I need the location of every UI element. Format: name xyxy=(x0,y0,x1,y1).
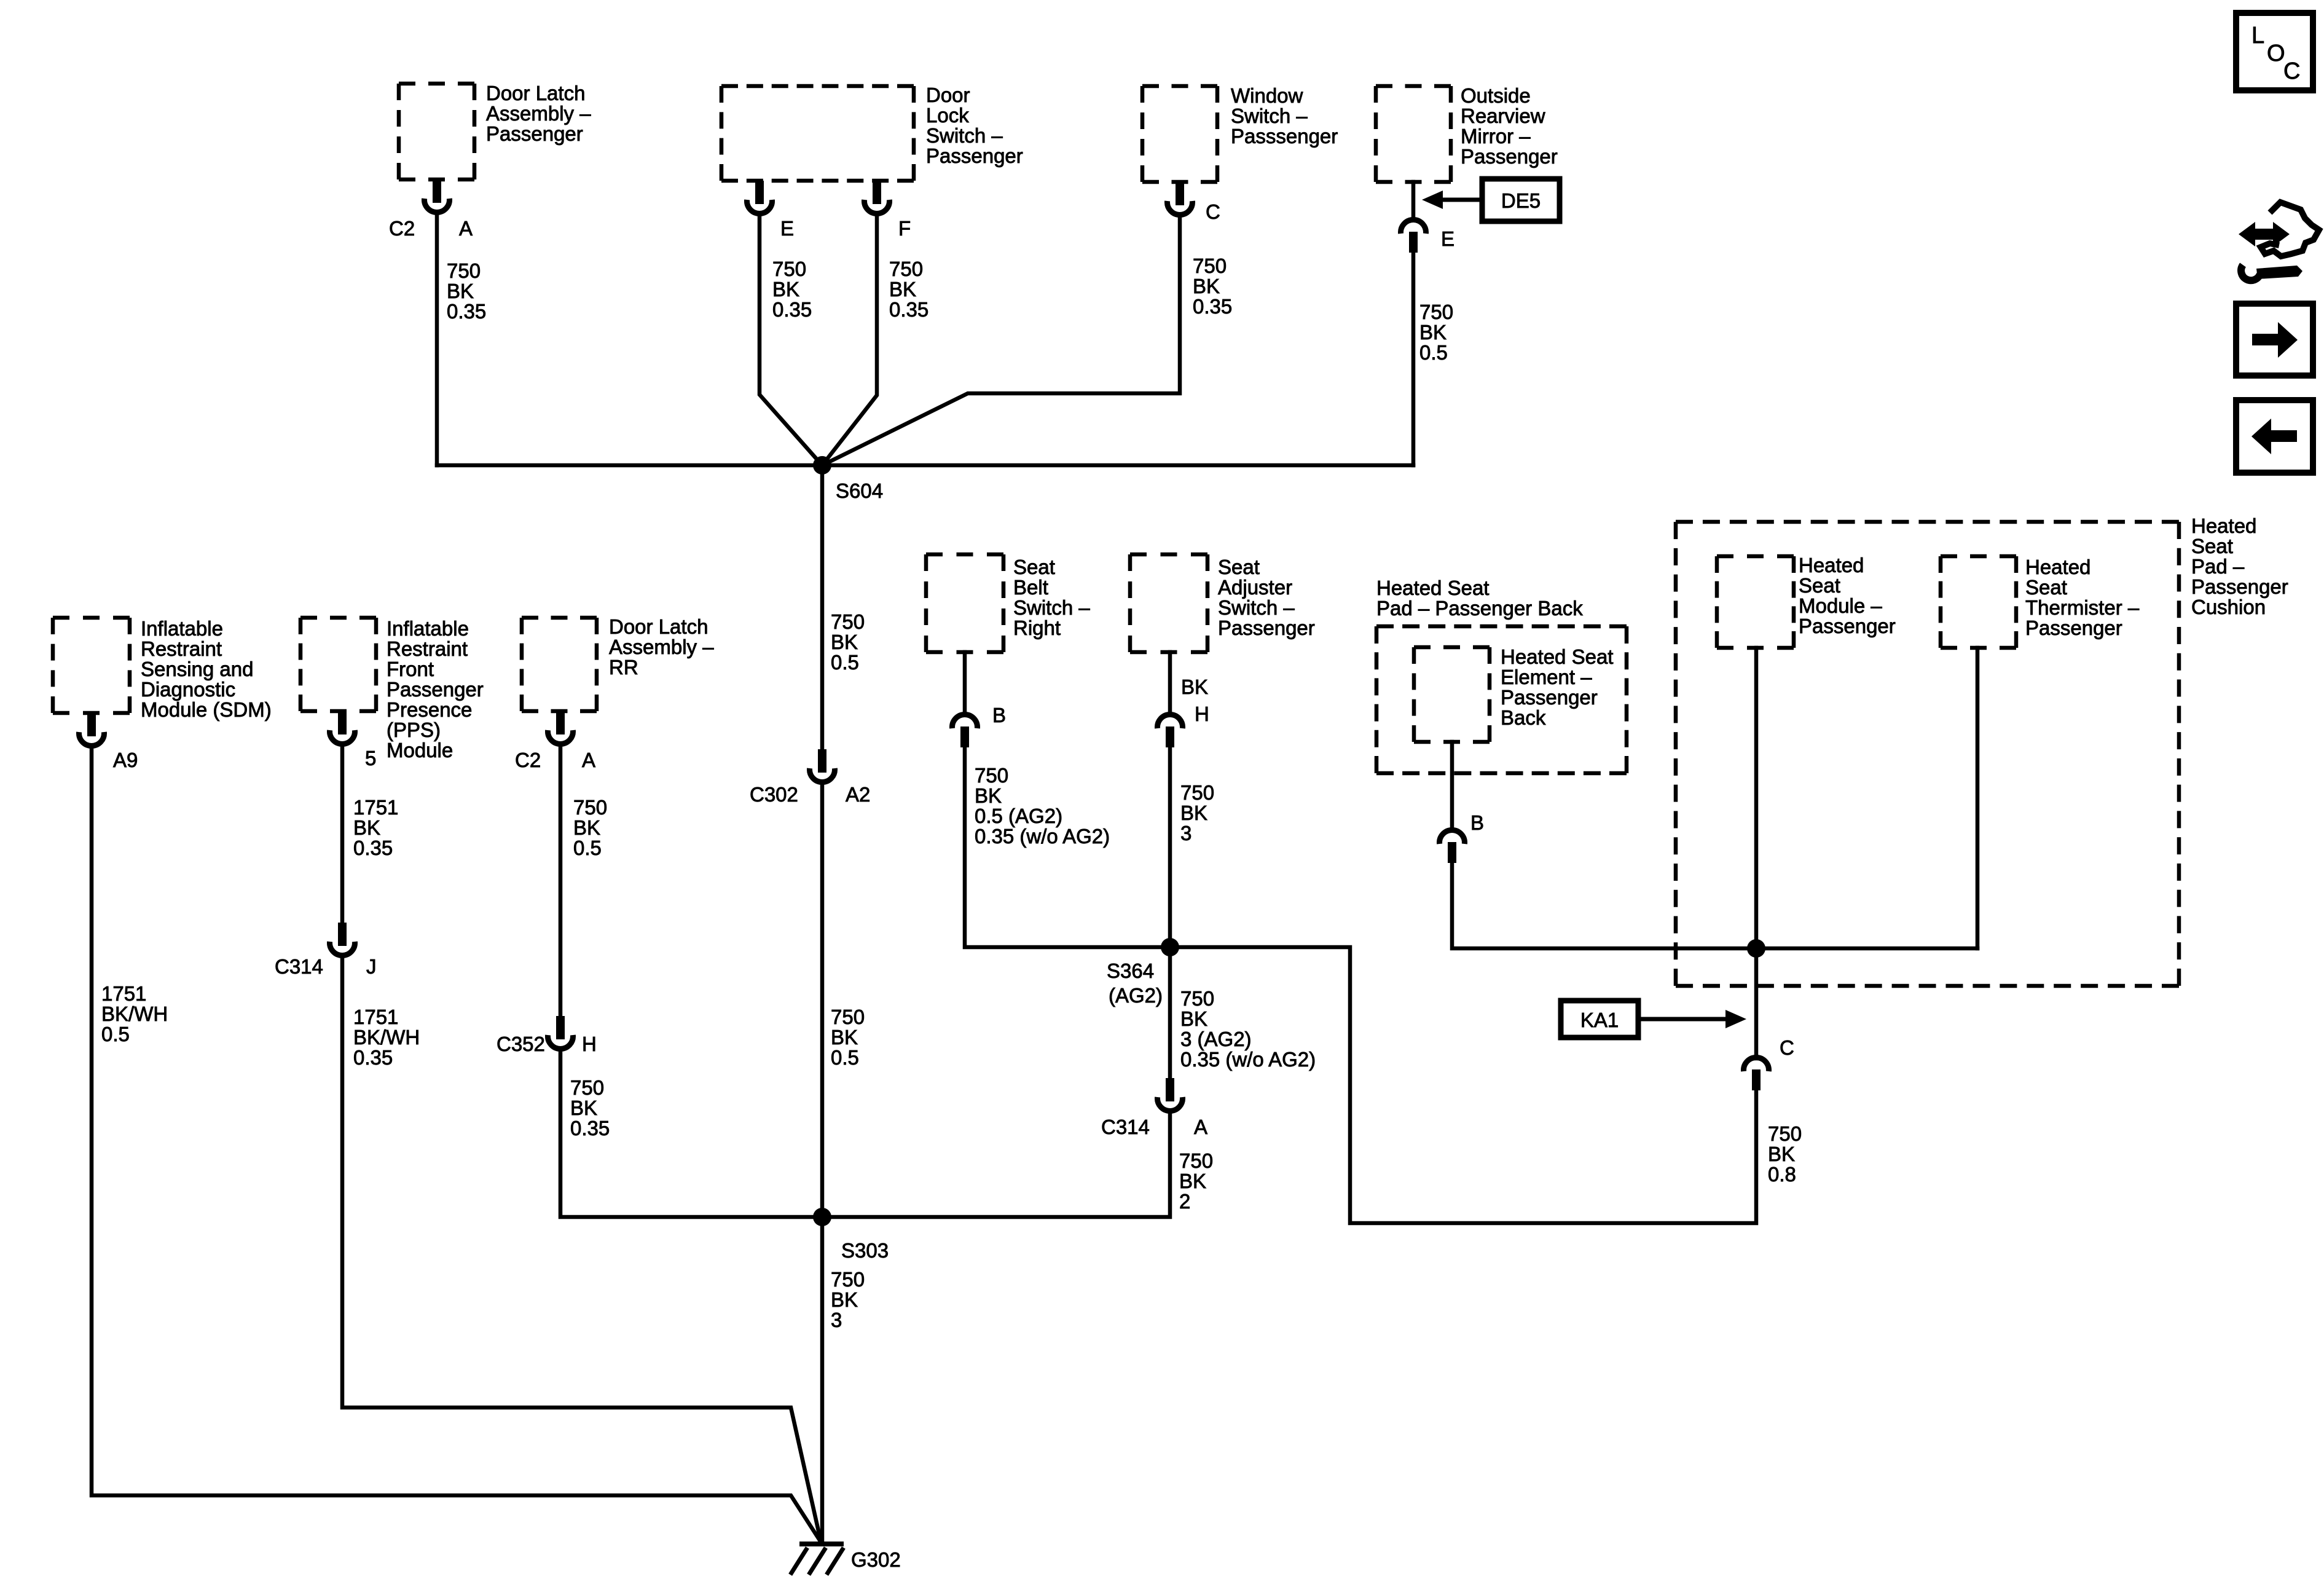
svg-text:Sensing and: Sensing and xyxy=(141,658,253,680)
wire label 750 BK 0.35 (pin E) xyxy=(772,258,812,321)
connector pin C of window switch xyxy=(1168,182,1193,215)
wire main ground bus at S604 xyxy=(437,463,1413,468)
wire 750 BK 0.35 from door latch A to S604 xyxy=(435,214,439,465)
svg-text:750: 750 xyxy=(831,1006,865,1028)
wire label 750 BK 0.5 (RR latch) xyxy=(573,796,607,859)
junction node of heated seat wires xyxy=(1747,939,1765,958)
svg-text:Passenger: Passenger xyxy=(486,122,583,145)
svg-text:2: 2 xyxy=(1179,1190,1190,1213)
wire 750 BK 2 from C314 A to S303 xyxy=(822,1112,1170,1217)
svg-text:J: J xyxy=(366,955,377,978)
label S303 xyxy=(841,1239,889,1262)
svg-text:Pad – Passenger Back: Pad – Passenger Back xyxy=(1376,597,1583,620)
svg-text:A2: A2 xyxy=(846,783,870,806)
svg-text:Module –: Module – xyxy=(1799,594,1882,617)
svg-text:BK: BK xyxy=(1180,1007,1207,1030)
svg-text:Door Latch: Door Latch xyxy=(486,82,585,104)
svg-text:Passenger: Passenger xyxy=(1501,686,1598,709)
wire label 750 BK 0.5 (AG2) 0.35 (w/o AG2) xyxy=(975,764,1110,848)
wire label 750 BK 3 (ground leg) xyxy=(831,1268,865,1331)
svg-text:750: 750 xyxy=(1193,254,1227,277)
svg-text:Restraint: Restraint xyxy=(141,637,222,660)
svg-text:A: A xyxy=(582,749,595,771)
svg-text:750: 750 xyxy=(889,258,923,280)
reference box KA1 xyxy=(1561,1001,1638,1038)
svg-text:750: 750 xyxy=(1180,987,1214,1010)
label C314 (J) xyxy=(275,955,323,978)
svg-text:Belt: Belt xyxy=(1013,576,1048,599)
wire label 750 BK 0.5 (C302 to S303) xyxy=(831,1006,865,1069)
label pin H (adjuster) xyxy=(1195,703,1209,725)
svg-text:Back: Back xyxy=(1501,706,1546,729)
component box: Outside Rearview Mirror - Passenger xyxy=(1376,86,1451,182)
svg-text:C2: C2 xyxy=(389,217,415,240)
svg-text:Module (SDM): Module (SDM) xyxy=(141,698,272,721)
svg-text:Switch –: Switch – xyxy=(1218,596,1295,619)
wire 750 BK 0.35 from C352 to S303 xyxy=(560,1050,822,1217)
svg-text:O: O xyxy=(2267,41,2285,66)
svg-text:Module: Module xyxy=(387,739,453,762)
label pin A (C314) xyxy=(1194,1116,1207,1138)
wire from element B to heated seat junction xyxy=(1452,863,1977,948)
connector pin B of seat belt switch xyxy=(952,714,977,747)
svg-text:Heated: Heated xyxy=(2025,556,2090,578)
svg-text:Lock: Lock xyxy=(926,104,969,127)
label pin C (heated seat) xyxy=(1780,1036,1794,1059)
svg-text:Switch –: Switch – xyxy=(1013,596,1090,619)
wire 750 BK 3 from S303 to G302 xyxy=(820,1217,825,1544)
wire label 750 BK 0.5 (S604 to C302) xyxy=(831,610,865,674)
svg-text:Passenger: Passenger xyxy=(2025,616,2122,639)
ground G302 symbol xyxy=(791,1542,844,1573)
svg-text:Passenger: Passenger xyxy=(2191,575,2288,598)
label Door Latch Assembly - RR xyxy=(609,615,714,679)
svg-text:Seat: Seat xyxy=(2191,535,2233,557)
svg-text:0.35: 0.35 xyxy=(1193,295,1232,318)
label pin J xyxy=(366,955,377,978)
svg-text:750: 750 xyxy=(570,1076,604,1099)
component box: Door Latch Assembly - Passenger xyxy=(399,84,474,179)
wire stub from mirror box to connector E xyxy=(1411,182,1416,219)
connector pin A of door latch (C2) xyxy=(425,179,450,213)
label Outside Rearview Mirror - Passenger xyxy=(1461,84,1558,168)
label BK (adjuster wire) xyxy=(1181,675,1208,698)
svg-text:BK: BK xyxy=(889,278,916,301)
component box: Heated Seat Pad - Passenger Cushion (outer) xyxy=(1676,522,2179,986)
svg-text:Outside: Outside xyxy=(1461,84,1531,107)
connector pin B of heated seat element xyxy=(1440,830,1465,863)
wire 750 BK to S364 (seat belt) xyxy=(965,747,1170,947)
svg-text:Passenger: Passenger xyxy=(387,678,484,701)
svg-text:C: C xyxy=(2283,58,2300,84)
connector pin A9 of SDM xyxy=(79,713,104,746)
svg-text:A9: A9 xyxy=(113,749,138,771)
svg-text:Heated: Heated xyxy=(1799,554,1864,577)
reference box DE5 xyxy=(1482,179,1560,221)
label pin B (element) xyxy=(1470,811,1484,834)
label KA1 xyxy=(1580,1009,1619,1031)
label Heated Seat Module - Passenger xyxy=(1799,554,1896,637)
label pin F xyxy=(898,217,911,240)
navigation box: arrow left xyxy=(2236,400,2313,473)
svg-text:S303: S303 xyxy=(841,1239,889,1262)
label C2 (RR latch) xyxy=(515,749,541,771)
wire from S604 down to C302 xyxy=(820,465,825,750)
svg-text:DE5: DE5 xyxy=(1501,189,1541,212)
label C2 xyxy=(389,217,415,240)
label pin 5 xyxy=(365,747,376,770)
svg-text:750: 750 xyxy=(1180,781,1214,804)
label Heated Seat Pad - Passenger Back xyxy=(1376,577,1583,620)
svg-text:F: F xyxy=(898,217,911,240)
svg-text:Rearview: Rearview xyxy=(1461,104,1545,127)
svg-text:C314: C314 xyxy=(1101,1116,1150,1138)
wire label 750 BK 0.35 (C352) xyxy=(570,1076,610,1140)
svg-text:H: H xyxy=(1195,703,1209,725)
wire label 1751 BK 0.35 xyxy=(353,796,398,859)
svg-text:Door Latch: Door Latch xyxy=(609,615,708,638)
wire 750 BK 3 from adjuster to S364 xyxy=(1168,747,1172,947)
svg-text:5: 5 xyxy=(365,747,376,770)
svg-text:0.35 (w/o AG2): 0.35 (w/o AG2) xyxy=(975,825,1110,848)
svg-text:0.35: 0.35 xyxy=(570,1117,610,1140)
svg-text:L: L xyxy=(2251,23,2264,49)
svg-text:750: 750 xyxy=(831,610,865,633)
svg-text:Thermister –: Thermister – xyxy=(2025,596,2140,619)
svg-text:RR: RR xyxy=(609,656,638,679)
label pin C xyxy=(1206,200,1220,223)
svg-text:A: A xyxy=(1194,1116,1207,1138)
svg-text:Heated Seat: Heated Seat xyxy=(1501,645,1613,668)
svg-text:Door: Door xyxy=(926,84,970,106)
wire label 750 BK 0.35 (pin F) xyxy=(889,258,928,321)
label C352 xyxy=(497,1033,545,1055)
svg-text:0.35: 0.35 xyxy=(447,300,486,323)
wire label 750 BK 0.5 (mirror) xyxy=(1419,301,1453,364)
svg-text:Right: Right xyxy=(1013,616,1061,639)
svg-text:750: 750 xyxy=(975,764,1008,787)
svg-text:0.5: 0.5 xyxy=(101,1023,130,1045)
svg-text:Restraint: Restraint xyxy=(387,637,468,660)
svg-text:Window: Window xyxy=(1231,84,1303,107)
label Seat Belt Switch - Right xyxy=(1013,556,1090,639)
svg-text:Mirror –: Mirror – xyxy=(1461,125,1531,148)
wire 750 BK 0.35 from pin F to S604 xyxy=(822,215,877,465)
svg-text:0.35: 0.35 xyxy=(353,1046,393,1069)
svg-text:Heated: Heated xyxy=(2191,514,2256,537)
svg-text:0.5 (AG2): 0.5 (AG2) xyxy=(975,805,1062,827)
svg-text:C352: C352 xyxy=(497,1033,545,1055)
label Heated Seat Pad - Passenger Cushion xyxy=(2191,514,2288,618)
label Seat Adjuster Switch - Passenger xyxy=(1218,556,1315,639)
label C302 xyxy=(750,783,798,806)
svg-text:Inflatable: Inflatable xyxy=(387,617,469,640)
svg-text:Assembly –: Assembly – xyxy=(609,636,714,658)
svg-text:BK: BK xyxy=(772,278,799,301)
connector pin E of mirror (harness side) xyxy=(1401,219,1426,253)
connector C352 pin H xyxy=(548,1016,573,1049)
label Window Switch - Passsenger xyxy=(1231,84,1338,148)
svg-text:Seat: Seat xyxy=(1799,574,1840,597)
label SDM module xyxy=(141,617,272,721)
svg-text:(PPS): (PPS) xyxy=(387,719,441,741)
svg-text:3: 3 xyxy=(1180,822,1191,845)
svg-text:A: A xyxy=(459,217,473,240)
connector pin A of RR door latch (C2) xyxy=(548,711,573,744)
label S364 (AG2) xyxy=(1107,959,1163,1007)
svg-text:750: 750 xyxy=(772,258,806,280)
wire label 1751 BK/WH 0.5 xyxy=(101,982,168,1045)
connector C314 pin A xyxy=(1158,1078,1183,1111)
label Heated Seat Element - Passenger Back xyxy=(1501,645,1613,729)
label pin E (mirror) xyxy=(1441,227,1454,250)
svg-text:0.5: 0.5 xyxy=(1419,341,1448,364)
svg-text:0.35: 0.35 xyxy=(889,298,928,321)
wire from thermister down to junction xyxy=(1976,648,1980,948)
svg-text:C2: C2 xyxy=(515,749,541,771)
svg-text:G302: G302 xyxy=(851,1548,901,1571)
svg-text:BK: BK xyxy=(831,1026,858,1049)
svg-text:Pad –: Pad – xyxy=(2191,555,2245,578)
arrow from DE5 to mirror wire xyxy=(1422,191,1482,209)
svg-text:BK: BK xyxy=(831,1288,858,1311)
svg-text:C: C xyxy=(1780,1036,1794,1059)
wire label 750 BK 3 xyxy=(1180,781,1214,845)
wire from heated seat module down to junction xyxy=(1754,648,1759,948)
svg-text:Passenger: Passenger xyxy=(1218,616,1315,639)
svg-text:BK: BK xyxy=(975,784,1002,807)
label pin B (seat belt) xyxy=(992,704,1006,726)
component box: Inflatable Restraint Sensing and Diagnostic Module (SDM) xyxy=(53,618,130,713)
label S604 xyxy=(836,479,883,502)
component box: Inflatable Restraint Front Passenger Presence (PPS) Module xyxy=(300,618,376,711)
wire label 750 BK 0.35 (pin C) xyxy=(1193,254,1232,318)
svg-text:E: E xyxy=(780,217,794,240)
component box: Seat Adjuster Switch - Passenger xyxy=(1130,554,1207,652)
svg-text:Passsenger: Passsenger xyxy=(1231,125,1338,148)
label pin E xyxy=(780,217,794,240)
svg-text:Cushion: Cushion xyxy=(2191,596,2266,618)
wire stub from seat adjuster switch to connector H xyxy=(1168,652,1172,714)
legend box LOC xyxy=(2236,13,2313,90)
svg-text:BK: BK xyxy=(1193,275,1220,297)
svg-text:BK: BK xyxy=(353,816,380,839)
connector pin H of seat adjuster switch xyxy=(1158,714,1183,747)
label Door Lock Switch - Passenger xyxy=(926,84,1023,167)
wire label 750 BK 0.8 xyxy=(1768,1122,1802,1186)
svg-text:1751: 1751 xyxy=(353,796,398,819)
svg-text:BK: BK xyxy=(573,816,600,839)
label C314 (A) xyxy=(1101,1116,1150,1138)
splice S364 xyxy=(1161,938,1179,956)
wire from heated seat C connector up to junction xyxy=(1754,948,1759,1058)
svg-text:Switch –: Switch – xyxy=(1231,104,1308,127)
label PPS module xyxy=(387,617,484,762)
svg-text:S604: S604 xyxy=(836,479,883,502)
svg-text:Assembly –: Assembly – xyxy=(486,102,591,125)
svg-text:750: 750 xyxy=(1768,1122,1802,1145)
wire label 1751 BK/WH 0.35 xyxy=(353,1006,420,1069)
svg-text:Seat: Seat xyxy=(2025,576,2067,599)
component box: Window Switch - Passsenger xyxy=(1142,86,1217,182)
svg-text:C302: C302 xyxy=(750,783,798,806)
svg-text:750: 750 xyxy=(1419,301,1453,323)
component box: Heated Seat Thermister - Passenger xyxy=(1941,556,2016,648)
wire label 750 BK 3 (AG2) 0.35 (w/o AG2) xyxy=(1180,987,1316,1071)
wire label 750 BK 0.35 (door latch) xyxy=(447,259,486,323)
svg-text:B: B xyxy=(1470,811,1484,834)
svg-text:C: C xyxy=(1206,200,1220,223)
svg-text:BK: BK xyxy=(570,1097,597,1119)
svg-text:3 (AG2): 3 (AG2) xyxy=(1180,1028,1252,1050)
svg-text:750: 750 xyxy=(1179,1149,1213,1172)
wire 1751 BK/WH 0.35 from C314 J to G302 xyxy=(342,957,820,1537)
svg-text:BK: BK xyxy=(447,280,474,302)
label G302 xyxy=(851,1548,901,1571)
component box: Heated Seat Module - Passenger xyxy=(1717,556,1794,648)
connector C302 pin A2 xyxy=(810,749,835,782)
svg-text:0.5: 0.5 xyxy=(831,1046,859,1069)
svg-text:BK: BK xyxy=(1181,675,1208,698)
wire stub from seat belt switch to connector B xyxy=(963,652,967,714)
component box: Door Lock Switch - Passenger xyxy=(721,86,914,181)
svg-text:(AG2): (AG2) xyxy=(1109,984,1163,1007)
svg-text:Passenger: Passenger xyxy=(1461,145,1558,168)
label pin A (RR latch) xyxy=(582,749,595,771)
svg-text:Element –: Element – xyxy=(1501,666,1592,688)
wire stub from heated seat element to connector B xyxy=(1450,742,1454,830)
splice S303 xyxy=(813,1208,831,1226)
svg-text:0.5: 0.5 xyxy=(831,651,859,674)
svg-text:E: E xyxy=(1441,227,1454,250)
svg-text:0.35: 0.35 xyxy=(353,837,393,859)
svg-text:Heated Seat: Heated Seat xyxy=(1376,577,1489,599)
svg-text:BK: BK xyxy=(1419,321,1447,344)
svg-text:B: B xyxy=(992,704,1006,726)
svg-text:BK/WH: BK/WH xyxy=(353,1026,420,1049)
svg-text:750: 750 xyxy=(447,259,481,282)
wire label 750 BK 2 xyxy=(1179,1149,1213,1213)
label Heated Seat Thermister - Passenger xyxy=(2025,556,2140,639)
wire 750 BK 0.35 from pin C to S604 xyxy=(822,216,1180,465)
label pin A9 xyxy=(113,749,138,771)
svg-text:BK: BK xyxy=(1179,1170,1206,1192)
component box: Seat Belt Switch - Right xyxy=(926,554,1003,652)
svg-text:Diagnostic: Diagnostic xyxy=(141,678,235,701)
label DE5 xyxy=(1501,189,1541,212)
label pin A2 xyxy=(846,783,870,806)
svg-text:1751: 1751 xyxy=(101,982,146,1005)
svg-text:750: 750 xyxy=(573,796,607,819)
svg-text:1751: 1751 xyxy=(353,1006,398,1028)
svg-text:Inflatable: Inflatable xyxy=(141,617,223,640)
wire 750 BK 0.5 from RR latch to C352 xyxy=(559,746,563,1017)
wire from S364 right and down to heated seat C connector xyxy=(1170,947,1756,1223)
svg-text:KA1: KA1 xyxy=(1580,1009,1619,1031)
svg-text:H: H xyxy=(582,1033,597,1055)
label pin H (C352) xyxy=(582,1033,597,1055)
icon: service tool glyph (double arrow, jagged outline, wrench) xyxy=(2239,202,2319,280)
svg-text:Passenger: Passenger xyxy=(1799,615,1896,637)
splice S604 xyxy=(813,456,831,474)
svg-text:BK: BK xyxy=(831,631,858,653)
svg-text:BK: BK xyxy=(1768,1143,1795,1165)
svg-text:Adjuster: Adjuster xyxy=(1218,576,1292,599)
svg-text:Switch –: Switch – xyxy=(926,124,1003,147)
component box: Door Latch Assembly - RR xyxy=(522,618,597,711)
wire 1751 BK 0.35 from PPS pin 5 to C314 xyxy=(340,746,345,923)
connector pin 5 of PPS module xyxy=(330,711,355,744)
svg-text:0.35: 0.35 xyxy=(772,298,812,321)
svg-text:0.5: 0.5 xyxy=(573,837,602,859)
svg-text:0.35 (w/o AG2): 0.35 (w/o AG2) xyxy=(1180,1048,1316,1071)
svg-text:BK/WH: BK/WH xyxy=(101,1002,168,1025)
svg-text:BK: BK xyxy=(1180,801,1207,824)
arrow from KA1 to heated seat wire xyxy=(1638,1010,1746,1028)
wire 1751 BK/WH 0.5 from SDM A9 to G302 xyxy=(92,747,820,1540)
svg-text:0.8: 0.8 xyxy=(1768,1163,1796,1186)
svg-text:750: 750 xyxy=(831,1268,865,1291)
navigation box: arrow right xyxy=(2236,304,2313,376)
svg-text:Presence: Presence xyxy=(387,698,472,721)
svg-text:Front: Front xyxy=(387,658,434,680)
label Door Latch Assembly - Passenger xyxy=(486,82,591,145)
svg-text:3: 3 xyxy=(831,1309,842,1331)
connector pin F of door lock switch xyxy=(865,181,890,214)
connector pin C of heated seat module harness xyxy=(1744,1057,1769,1090)
svg-text:S364: S364 xyxy=(1107,959,1154,982)
wire 750 BK 0.5 from mirror E to S604 xyxy=(1411,253,1416,465)
svg-text:Seat: Seat xyxy=(1218,556,1260,578)
connector pin E of door lock switch xyxy=(747,181,772,214)
svg-text:Passenger: Passenger xyxy=(926,144,1023,167)
wire from C302 to S303 xyxy=(820,784,825,1217)
wire 750 BK 0.35 from pin E to S604 xyxy=(760,215,822,465)
wire from S364 down to C314 A xyxy=(1168,947,1172,1079)
svg-text:C314: C314 xyxy=(275,955,323,978)
component box: Heated Seat Pad - Passenger Back (outer) xyxy=(1376,626,1627,773)
component box: Heated Seat Element - Passenger Back xyxy=(1414,647,1490,742)
svg-text:Seat: Seat xyxy=(1013,556,1055,578)
label pin A xyxy=(459,217,473,240)
connector C314 pin J xyxy=(330,923,355,956)
